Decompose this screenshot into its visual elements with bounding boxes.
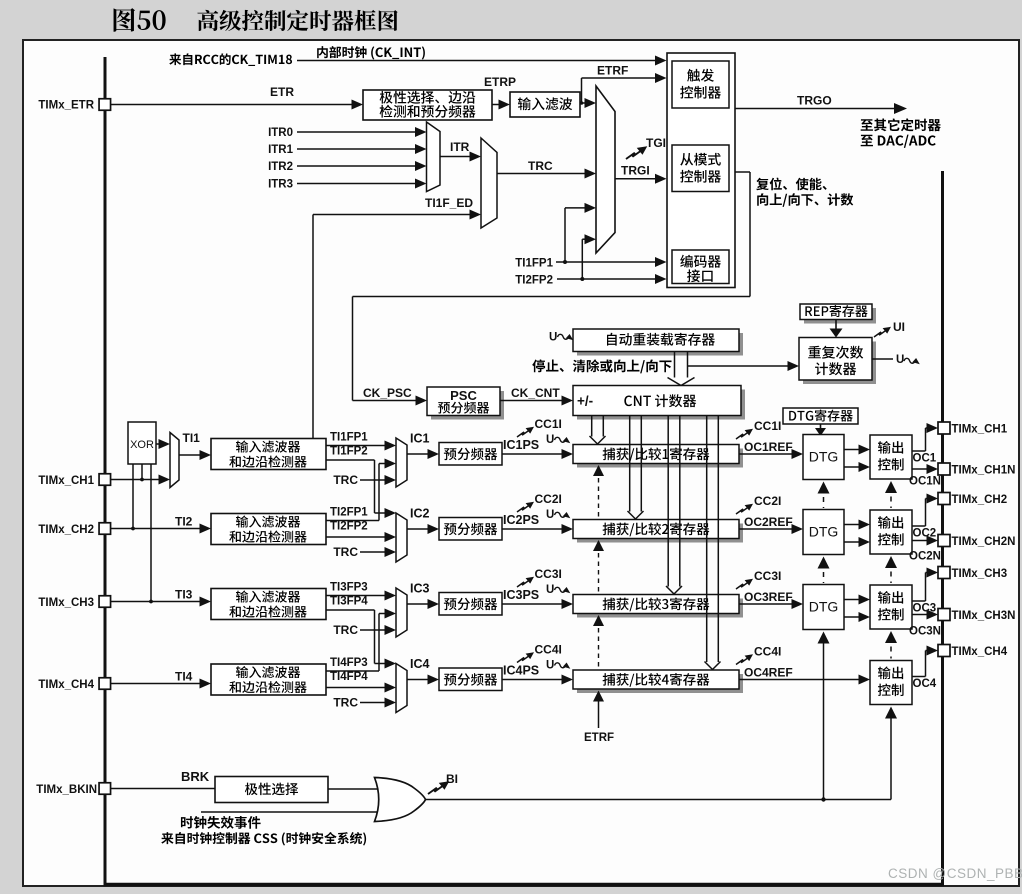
- svg-text:TIMx_CH3: TIMx_CH3: [952, 568, 1008, 580]
- svg-text:TRC: TRC: [528, 159, 553, 173]
- svg-text:TRGO: TRGO: [797, 94, 832, 108]
- svg-text:TI2: TI2: [175, 515, 193, 529]
- svg-text:TRGI: TRGI: [621, 164, 650, 178]
- svg-text:OC1: OC1: [913, 453, 937, 465]
- svg-text:CC2I: CC2I: [535, 492, 562, 506]
- svg-text:ITR3: ITR3: [268, 179, 293, 191]
- svg-text:TI1FP1: TI1FP1: [330, 432, 368, 444]
- svg-text:IC1PS: IC1PS: [503, 438, 539, 452]
- svg-text:CC4I: CC4I: [535, 643, 562, 657]
- svg-text:OC1REF: OC1REF: [744, 440, 793, 454]
- svg-text:IC1: IC1: [410, 432, 430, 446]
- svg-text:OC1N: OC1N: [909, 476, 941, 488]
- svg-text:CC2I: CC2I: [754, 494, 781, 508]
- svg-text:DTG: DTG: [809, 524, 839, 540]
- svg-text:TIMx_CH1: TIMx_CH1: [38, 475, 94, 487]
- svg-text:ETR: ETR: [270, 85, 294, 99]
- svg-text:CK_CNT: CK_CNT: [511, 386, 560, 400]
- svg-text:OC2REF: OC2REF: [744, 515, 793, 529]
- svg-text:DTG: DTG: [809, 599, 839, 615]
- svg-text:TI4FP4: TI4FP4: [330, 671, 368, 683]
- svg-text:TRC: TRC: [333, 473, 358, 487]
- svg-text:IC4: IC4: [410, 657, 430, 671]
- svg-text:U: U: [549, 332, 557, 344]
- svg-text:IC2: IC2: [410, 507, 430, 521]
- svg-text:UI: UI: [893, 320, 905, 334]
- svg-text:U: U: [546, 584, 554, 596]
- svg-text:CC3I: CC3I: [535, 567, 562, 581]
- svg-text:U: U: [896, 354, 904, 366]
- svg-text:TIMx_ETR: TIMx_ETR: [38, 100, 94, 112]
- svg-text:TI2FP1: TI2FP1: [330, 507, 368, 519]
- svg-text:BI: BI: [446, 772, 458, 786]
- svg-text:IC2PS: IC2PS: [503, 513, 539, 527]
- svg-text:CK_PSC: CK_PSC: [363, 386, 412, 400]
- svg-text:OC3N: OC3N: [909, 626, 941, 638]
- svg-text:TIMx_CH4: TIMx_CH4: [38, 679, 94, 691]
- svg-text:U: U: [546, 660, 554, 672]
- svg-text:CSDN @CSDN_PBB: CSDN @CSDN_PBB: [888, 866, 1022, 881]
- svg-text:OC2N: OC2N: [909, 551, 941, 563]
- svg-text:TI4FP3: TI4FP3: [330, 657, 368, 669]
- svg-text:TI3: TI3: [175, 588, 193, 602]
- svg-text:OC2: OC2: [913, 528, 937, 540]
- svg-text:TI1FP2: TI1FP2: [330, 446, 368, 458]
- svg-text:TIMx_CH4: TIMx_CH4: [952, 646, 1008, 658]
- svg-text:TI2FP2: TI2FP2: [515, 275, 553, 287]
- svg-text:ITR: ITR: [450, 140, 470, 154]
- svg-text:ETRF: ETRF: [597, 64, 628, 78]
- svg-text:TIMx_CH2: TIMx_CH2: [38, 524, 94, 536]
- svg-text:TI1: TI1: [183, 431, 201, 445]
- svg-text:TI1F_ED: TI1F_ED: [425, 196, 473, 210]
- svg-text:TRC: TRC: [333, 696, 358, 710]
- svg-text:CC1I: CC1I: [535, 417, 562, 431]
- svg-text:TRC: TRC: [333, 545, 358, 559]
- svg-text:DTG: DTG: [809, 449, 839, 465]
- svg-text:U: U: [546, 434, 554, 446]
- svg-text:TRC: TRC: [333, 623, 358, 637]
- svg-text:TIMx_CH2N: TIMx_CH2N: [952, 536, 1016, 548]
- svg-text:CC3I: CC3I: [754, 569, 781, 583]
- svg-text:TI2FP2: TI2FP2: [330, 521, 368, 533]
- svg-text:ETRF: ETRF: [584, 732, 614, 744]
- svg-text:CC4I: CC4I: [754, 645, 781, 659]
- svg-text:TIMx_CH1: TIMx_CH1: [952, 424, 1008, 436]
- svg-text:+/-: +/-: [577, 394, 593, 409]
- svg-text:IC3PS: IC3PS: [503, 588, 539, 602]
- svg-text:PSC: PSC: [450, 388, 477, 403]
- svg-text:TGI: TGI: [646, 136, 666, 150]
- svg-text:OC3REF: OC3REF: [744, 590, 793, 604]
- svg-text:OC4REF: OC4REF: [744, 666, 793, 680]
- svg-text:TI3FP4: TI3FP4: [330, 596, 368, 608]
- svg-text:TIMx_BKIN: TIMx_BKIN: [36, 784, 97, 796]
- svg-text:ETRP: ETRP: [484, 75, 516, 89]
- svg-text:TI1FP1: TI1FP1: [515, 258, 553, 270]
- svg-text:ITR2: ITR2: [268, 161, 293, 173]
- svg-text:TIMx_CH3: TIMx_CH3: [38, 597, 94, 609]
- svg-text:OC4: OC4: [913, 678, 937, 690]
- svg-text:TI4: TI4: [175, 670, 193, 684]
- svg-text:IC3: IC3: [410, 582, 430, 596]
- svg-text:CC1I: CC1I: [754, 419, 781, 433]
- svg-text:XOR: XOR: [130, 439, 154, 451]
- svg-text:TIMx_CH3N: TIMx_CH3N: [952, 610, 1016, 622]
- svg-text:ITR0: ITR0: [268, 127, 293, 139]
- svg-text:IC4PS: IC4PS: [503, 664, 539, 678]
- svg-text:U: U: [546, 509, 554, 521]
- svg-text:TIMx_CH1N: TIMx_CH1N: [952, 465, 1016, 477]
- svg-text:BRK: BRK: [181, 769, 210, 784]
- svg-text:TI3FP3: TI3FP3: [330, 582, 368, 594]
- svg-text:TIMx_CH2: TIMx_CH2: [952, 494, 1008, 506]
- svg-text:ITR1: ITR1: [268, 144, 294, 156]
